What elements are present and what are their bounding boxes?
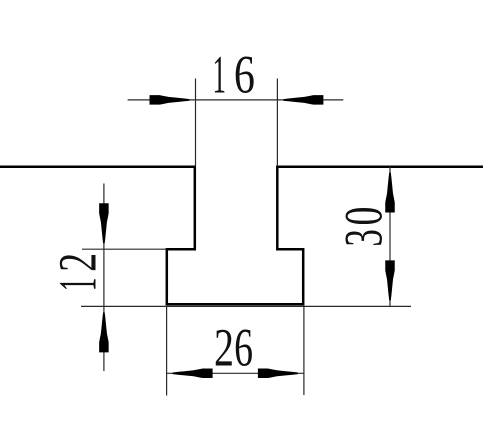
arrow 16 left bbox=[150, 95, 190, 105]
dimension line 16 bbox=[128, 99, 344, 101]
arrow 26 left bbox=[173, 369, 213, 379]
T-slot profile outline bbox=[0, 167, 483, 304]
svg-text:3: 3 bbox=[333, 229, 393, 247]
extension line left of dim 16 bbox=[195, 79, 197, 167]
shared bottom extension line for dim 12 and dim 30 bbox=[81, 305, 411, 307]
arrow 12 top bbox=[99, 203, 109, 243]
svg-text:6: 6 bbox=[234, 45, 255, 104]
arrow 26 right bbox=[258, 369, 298, 379]
arrow 16 right bbox=[283, 95, 323, 105]
svg-text:6: 6 bbox=[234, 318, 253, 378]
svg-text:0: 0 bbox=[334, 207, 394, 226]
dim text 16 bbox=[212, 45, 254, 104]
dim text 30 (rotated) bbox=[333, 207, 394, 247]
dimension line 12 bbox=[103, 184, 105, 372]
svg-text:2: 2 bbox=[48, 253, 108, 272]
arrow 30 bottom bbox=[385, 260, 395, 300]
svg-text:1: 1 bbox=[49, 278, 108, 291]
arrow 12 bottom bbox=[99, 312, 109, 352]
dim text 26 bbox=[214, 318, 253, 378]
svg-text:1: 1 bbox=[212, 45, 225, 104]
extension line right of dim 26 bbox=[303, 305, 305, 396]
extension line left of dim 26 bbox=[166, 306, 168, 396]
dimension line 26 bbox=[167, 372, 304, 374]
arrow 30 top bbox=[385, 173, 395, 213]
svg-text:2: 2 bbox=[214, 319, 234, 378]
dim text 12 (rotated) bbox=[48, 253, 108, 291]
extension line right of dim 16 bbox=[276, 79, 278, 167]
dimension line 30 bbox=[389, 167, 391, 307]
extension line top of dim 12 bbox=[82, 248, 167, 250]
